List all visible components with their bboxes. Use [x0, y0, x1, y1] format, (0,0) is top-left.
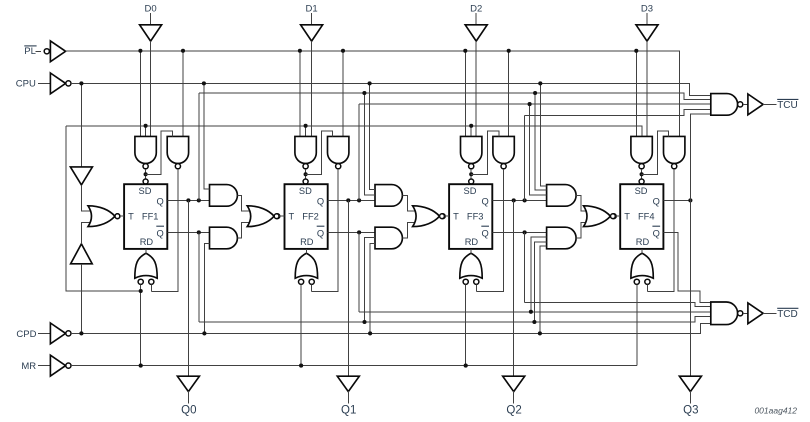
svg-text:Q1: Q1: [341, 404, 356, 416]
svg-text:Q: Q: [157, 196, 164, 206]
node SD2: [304, 172, 308, 176]
buffer Q1 output: [337, 376, 359, 391]
bubble SD input FF4: [639, 179, 644, 184]
wire T1 NOR to FF1: [120, 215, 124, 217]
and CPD-gate T4: [547, 227, 577, 249]
wire MR label to buffer: [38, 365, 50, 367]
nor T1 gate: [88, 206, 120, 227]
wire Q3 riser to TCU: [690, 114, 710, 201]
wire down-AND to T2 NOR: [237, 222, 253, 238]
node Q0bar feedback: [197, 230, 201, 234]
wire RD gate to FF2 RD input: [305, 249, 307, 253]
wire T3 NOR to FF3: [444, 215, 449, 217]
node MR link FF1: [139, 289, 143, 293]
wire CPU to down-triangle: [80, 83, 82, 166]
node SD1: [144, 172, 148, 176]
wire Q2 output line: [492, 199, 546, 201]
buffer D1 input: [301, 25, 323, 41]
wire Q2bar drop: [524, 232, 526, 302]
buffer D2 input: [465, 25, 487, 41]
node CPD/T2b: [202, 331, 206, 335]
node MR rail stage2: [304, 124, 308, 128]
svg-text:TCD: TCD: [777, 309, 798, 320]
wire TCU buffer to label: [763, 103, 776, 105]
node MR rail stage3: [469, 124, 473, 128]
nand SD2 (PL-MR-D1): [295, 136, 316, 168]
node PL/stage4a: [634, 49, 638, 53]
node PL/stage3b: [507, 49, 511, 53]
svg-text:T: T: [453, 212, 459, 222]
node Q2 output: [512, 198, 516, 202]
wire RD gate2 input from MR: [300, 284, 302, 365]
wire Q1bar to T3 down-AND: [365, 238, 376, 322]
wire Q1 to T3 up-AND: [364, 93, 375, 195]
wire PL to stage1 SD NAND: [139, 51, 141, 137]
buffer D0 input: [140, 25, 162, 41]
nand SD4 (PL-MR-D3): [631, 136, 652, 168]
wire CPD to T3 down-AND: [370, 244, 375, 334]
wire Q0 output line: [167, 199, 209, 201]
svg-text:Q: Q: [317, 228, 324, 238]
wire D1 label to buffer: [311, 13, 313, 25]
node Q2/T4: [528, 102, 532, 106]
wire Q2bar to T4 down-AND: [531, 237, 547, 312]
wire Q2 to T4 up-AND: [530, 104, 547, 195]
wire T4 NOR to FF4: [615, 215, 620, 217]
svg-text:FF3: FF3: [467, 212, 484, 222]
wire PL to stage3 SD NAND: [464, 51, 466, 137]
wire Q1 feedback to TCU: [199, 93, 711, 100]
wire T input FF1: [120, 215, 124, 217]
svg-text:Q2: Q2: [506, 404, 521, 416]
wire RD gate to FF1 RD input: [145, 249, 147, 253]
node PL/stage2a: [298, 49, 302, 53]
svg-text:FF1: FF1: [142, 212, 159, 222]
flip-flop FF4: [620, 184, 663, 249]
wire SD NAND4 output to SD input: [641, 169, 643, 184]
svg-text:D1: D1: [306, 4, 318, 15]
and CPD-gate T3: [375, 227, 402, 249]
wire SD NAND1 output to SD input: [145, 169, 147, 184]
node PL/stage2b: [341, 49, 345, 53]
svg-text:Q: Q: [482, 196, 489, 206]
svg-text:FF4: FF4: [638, 212, 655, 222]
wire T input FF3: [445, 215, 449, 217]
wire RD NAND1 output down to RD gate: [151, 169, 178, 292]
wire RD gate1 input from RD NAND: [150, 284, 152, 291]
wire up-AND to T3 NOR: [402, 195, 418, 211]
wire RD gate1 input from MR: [140, 284, 142, 365]
buffer CPD (output bubble): [50, 323, 71, 344]
wire RD gate to FF4 RD input: [641, 249, 643, 253]
wire MR rail to stage2 SD NAND: [305, 126, 307, 137]
node CPD/T1: [79, 331, 83, 335]
wire CPU to T2 up-AND: [204, 83, 210, 189]
wire Q1 output stub: [347, 391, 349, 403]
wire RD gate3 input from RD NAND: [475, 284, 477, 291]
nand RD4 (PL-SDout): [664, 136, 685, 168]
wire CPD label to buffer: [38, 332, 50, 334]
node Q1bar feedback: [357, 230, 361, 234]
nor RD gate FF2 (negative-input): [295, 253, 317, 284]
wire PL to stage4 SD NAND: [635, 51, 637, 137]
nand RD3 (PL-SDout): [493, 136, 514, 168]
wire Q1 output line: [328, 199, 375, 201]
nor RD gate FF1 (negative-input): [135, 253, 157, 284]
wire D1 to SD NAND: [311, 41, 313, 136]
nor RD gate FF3 (negative-input): [460, 253, 482, 284]
wire RD gate2 input from RD NAND: [311, 284, 313, 291]
svg-text:D3: D3: [641, 4, 653, 15]
svg-text:SD: SD: [635, 186, 648, 196]
wire Q1 riser: [358, 104, 360, 200]
flip-flop FF3: [449, 184, 492, 249]
node MR rail stage1: [144, 124, 148, 128]
svg-text:MR: MR: [21, 361, 36, 372]
node Q0 output: [186, 198, 190, 202]
nor RD gate FF4 (negative-input): [631, 253, 653, 284]
wire CPU to T4 up-AND: [540, 83, 546, 185]
svg-text:CPU: CPU: [16, 78, 36, 89]
svg-text:Q: Q: [482, 228, 489, 238]
node Q1/T4: [533, 91, 537, 95]
svg-text:001aag412: 001aag412: [754, 406, 797, 416]
wire Q2bar feedback to TCD: [359, 311, 711, 313]
wire down-triangle to T1 NOR input: [81, 185, 93, 211]
buffer D3 input: [636, 25, 658, 41]
flip-flop FF2: [285, 184, 328, 249]
and CPU-gate T4: [547, 185, 577, 207]
node Q2bar feedback: [523, 230, 527, 234]
wire Q0 riser: [198, 93, 200, 200]
wire MR bus: [71, 365, 637, 367]
node CPD/T3b: [368, 331, 372, 335]
node Q1 feedback: [357, 198, 361, 202]
wire CPD to T2 down-AND: [204, 244, 209, 334]
wire Q0bar output line: [167, 231, 209, 233]
nor T2 gate: [247, 206, 279, 227]
node Q1bar/T4b: [532, 320, 536, 324]
nand RD1 (PL-SDout): [167, 136, 188, 168]
svg-text:D2: D2: [470, 4, 482, 15]
svg-text:D0: D0: [145, 4, 157, 15]
wire to Q1 output buffer: [347, 200, 349, 376]
svg-text:PL: PL: [24, 46, 36, 57]
output label TCD: [777, 308, 798, 320]
wire up-AND to T2 NOR: [237, 195, 253, 211]
wire Q1bar feedback to TCD: [199, 316, 711, 322]
node Q1 output: [346, 198, 350, 202]
wire RD NAND2 output down to RD gate: [312, 169, 339, 292]
wire MR rail to stage1 SD NAND: [145, 126, 147, 137]
output label TCU: [777, 99, 798, 111]
node MR stage1: [139, 364, 143, 368]
node MR stage3: [464, 364, 468, 368]
node CPU/T2: [202, 81, 206, 85]
node SD4: [640, 172, 644, 176]
svg-text:T: T: [624, 212, 630, 222]
svg-text:Q: Q: [653, 196, 660, 206]
wire TCD buffer to label: [763, 312, 776, 314]
nand SD1 (PL-MR-D0): [135, 136, 156, 168]
and CPD-gate T2: [210, 227, 238, 249]
wire SD NAND2 output to SD input: [305, 169, 307, 184]
wire RD gate4 input from MR: [636, 284, 638, 365]
svg-text:T: T: [289, 212, 295, 222]
wire Q2 output stub: [513, 391, 515, 403]
wire D0 to SD NAND: [150, 41, 152, 136]
nor T4 gate: [584, 206, 616, 227]
wire Q3 feedback to TCU: [525, 109, 711, 115]
svg-text:RD: RD: [636, 237, 650, 247]
wire CPD to up-triangle: [80, 264, 82, 334]
wire PL to stage2 SD NAND: [299, 51, 301, 137]
wire MR rail to SD NANDs: [66, 126, 642, 137]
nand RD2 (PL-SDout): [328, 136, 349, 168]
svg-text:SD: SD: [464, 186, 477, 196]
flip-flop FF1: [124, 184, 167, 249]
bubble SD input FF2: [303, 179, 308, 184]
wire T input FF4: [616, 215, 620, 217]
wire RD gate4 input from RD NAND: [646, 284, 648, 291]
wire T input FF2: [280, 215, 285, 217]
wire to Q2 output buffer: [513, 200, 515, 376]
wire to Q3 output buffer: [689, 200, 691, 376]
node Q1/T3: [362, 91, 366, 95]
node Q2bar/T4b: [529, 310, 533, 314]
wire CPD bus to TCD gate: [71, 323, 711, 333]
wire down-AND to T3 NOR: [402, 222, 418, 238]
wire T2 NOR to FF2: [279, 215, 285, 217]
wire CPU bus to TCU gate: [71, 83, 711, 95]
buffer TCD output: [748, 303, 763, 324]
svg-text:RD: RD: [465, 237, 479, 247]
svg-text:CPD: CPD: [16, 329, 36, 340]
svg-text:Q0: Q0: [181, 404, 196, 416]
node CPD/T4b: [538, 331, 542, 335]
wire RD NAND3 output down to RD gate: [476, 169, 503, 292]
and CPU-gate T3: [375, 185, 402, 207]
svg-text:Q: Q: [653, 228, 660, 238]
bubble T input FF4: [611, 214, 616, 219]
nand SD3 (PL-MR-D2): [461, 136, 482, 168]
buffer Q2 output: [503, 376, 525, 391]
wire TCD gate to buffer: [743, 312, 748, 314]
node PL/stage1b: [181, 49, 185, 53]
node Q1bar/T3b: [362, 320, 366, 324]
node Q0 feedback: [197, 198, 201, 202]
wire Q1bar drop: [358, 232, 360, 311]
wire D0 label to buffer: [150, 13, 152, 25]
node Q2 feedback: [523, 198, 527, 202]
wire SD NAND3 out to RD NAND3 input: [471, 131, 499, 174]
svg-text:SD: SD: [299, 186, 312, 196]
wire PL to stage3 RD NAND: [508, 51, 510, 137]
wire Q0 output stub: [187, 391, 189, 403]
wire Q3 output stub: [689, 391, 691, 403]
wire Q1bar output line: [328, 231, 375, 233]
node CPU/T1: [79, 81, 83, 85]
wire PL to stage1 RD NAND: [182, 51, 184, 137]
bubble T input FF1: [115, 214, 120, 219]
buffer T1 clock up path: [70, 167, 92, 185]
nor T3 gate: [413, 206, 445, 227]
svg-text:SD: SD: [139, 186, 152, 196]
svg-text:Q: Q: [157, 228, 164, 238]
wire up-AND to T4 NOR: [576, 195, 589, 211]
wire D3 to SD NAND: [646, 41, 648, 136]
wire MR rail to stage3 SD NAND: [470, 126, 472, 137]
svg-text:Q: Q: [317, 196, 324, 206]
wire PL bus (ends dropping into stage4 right NAND): [66, 51, 680, 137]
bubble TCU gate output: [738, 102, 743, 107]
wire SD NAND2 out to RD NAND2 input: [306, 131, 333, 174]
wire RD NAND4 output down to RD gate: [647, 169, 674, 292]
bubble SD input FF3: [469, 179, 474, 184]
wire down-AND to T4 NOR: [576, 222, 589, 238]
wire CPU label to buffer: [38, 82, 50, 84]
wire Q3bar feedback to TCD: [525, 302, 711, 306]
wire D3 label to buffer: [646, 13, 648, 25]
node SD3: [469, 172, 473, 176]
svg-text:TCU: TCU: [777, 100, 798, 111]
wire Q3 output line: [663, 199, 690, 201]
buffer CPU (output bubble): [50, 73, 71, 94]
nand TCU gate: [711, 94, 738, 116]
wire RD gate to FF3 RD input: [470, 249, 472, 253]
wire up-triangle to T1 NOR input: [81, 222, 93, 244]
wire to Q0 output buffer: [187, 200, 189, 376]
wire D2 to SD NAND: [475, 41, 477, 136]
wire RD gate3 input from MR: [465, 284, 467, 365]
bubble TCD gate output: [738, 311, 743, 316]
wire PL to stage2 RD NAND: [342, 51, 344, 137]
wire PL label to bubble: [35, 50, 41, 52]
svg-text:T: T: [128, 212, 134, 222]
node PL/stage1a: [138, 49, 142, 53]
buffer T1 clock down path: [71, 244, 93, 264]
wire SD NAND1 out to RD NAND1 input: [146, 131, 173, 174]
node CPU/T3: [368, 81, 372, 85]
input label PL: [24, 46, 36, 57]
buffer Q0 output: [177, 376, 199, 391]
bubble T input FF3: [440, 214, 445, 219]
svg-text:RD: RD: [300, 237, 314, 247]
wire Q2 riser: [524, 115, 526, 200]
wire TCU gate to buffer: [743, 103, 748, 105]
wire SD NAND4 out to RD NAND4 input: [642, 131, 669, 174]
node Q3 output: [688, 198, 692, 202]
wire D2 label to buffer: [475, 13, 477, 25]
bubble SD input FF1: [143, 179, 148, 184]
node PL/stage3a: [463, 49, 467, 53]
svg-text:FF2: FF2: [302, 212, 319, 222]
wire CPU to T3 up-AND: [370, 83, 375, 189]
buffer Q3 output: [679, 376, 701, 391]
wire Q1 to T4 up-AND: [535, 93, 547, 190]
wire left MR rail down to FF1 RD gate input: [66, 126, 141, 291]
buffer PL (input bubble): [44, 41, 65, 62]
and CPU-gate T2: [210, 185, 238, 207]
wire Q1bar to T4 down-AND: [534, 242, 546, 322]
buffer MR (output bubble): [50, 355, 71, 376]
wire SD NAND3 output to SD input: [470, 169, 472, 184]
wire CPD to T4 down-AND: [540, 246, 547, 333]
buffer TCU output: [748, 94, 763, 115]
wire Q2bar output line: [492, 231, 546, 233]
bubble T input FF2: [275, 214, 280, 219]
wire Q3bar to TCD gate: [663, 233, 710, 303]
nand TCD gate: [711, 302, 738, 325]
svg-text:RD: RD: [140, 237, 154, 247]
node CPU/T4: [538, 81, 542, 85]
node MR stage2: [299, 364, 303, 368]
wire Q0bar drop: [198, 232, 200, 322]
svg-text:Q3: Q3: [683, 404, 698, 416]
wire Q2 feedback to TCU: [359, 103, 711, 105]
